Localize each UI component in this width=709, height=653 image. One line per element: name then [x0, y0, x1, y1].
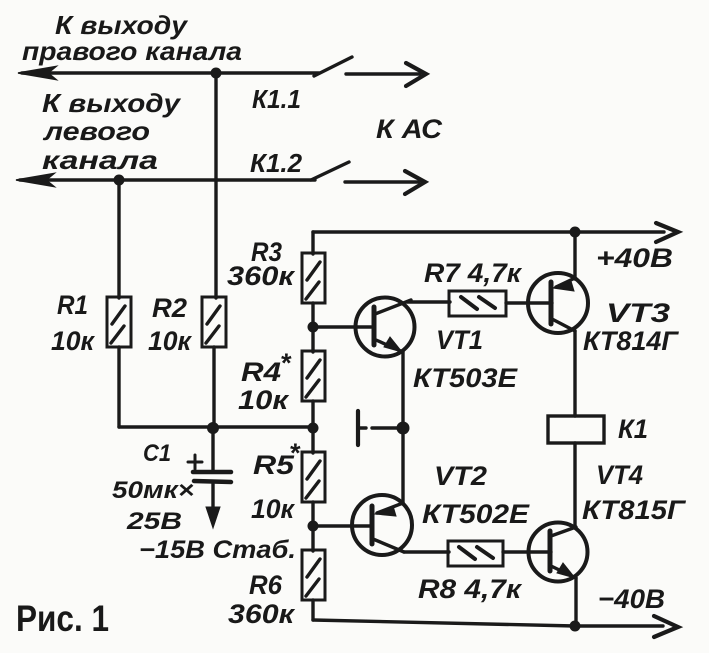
svg-text:К1: К1: [618, 414, 648, 444]
transistor VT4 (KT815G, NPN): [529, 523, 588, 582]
svg-text:VT4: VT4: [596, 460, 643, 490]
svg-text:*: *: [289, 438, 301, 468]
svg-text:R4: R4: [241, 357, 281, 387]
C1 polarity plus sign: [188, 461, 202, 464]
resistor R1 body: [107, 297, 131, 347]
svg-text:10к: 10к: [148, 326, 192, 356]
svg-text:−15В Стаб.: −15В Стаб.: [139, 536, 296, 564]
wire: +40V top rail: [313, 230, 664, 233]
svg-text:R7 4,7к: R7 4,7к: [424, 258, 522, 288]
wire: R8 to VT4 base: [503, 550, 551, 553]
node: K1.2 junction: [114, 175, 125, 186]
wire: R6 bottom lead: [311, 600, 314, 620]
switch contact K1.2 blade: [311, 162, 349, 180]
svg-text:25В: 25В: [126, 508, 182, 535]
wire: R7 to VT3 base: [506, 301, 552, 304]
wire: VT1 emitter lead down: [401, 353, 404, 428]
svg-text:КТ502Е: КТ502Е: [422, 499, 530, 529]
node: +40V junction at VT3 emitter: [570, 227, 581, 238]
node: VT1/VT2 emitter junction: [397, 422, 410, 435]
svg-text:10к: 10к: [51, 326, 95, 356]
wire: VT1 base wire: [313, 325, 371, 328]
relay K1 coil: [548, 416, 604, 443]
svg-text:VT1: VT1: [436, 325, 483, 355]
resistor R6 body: [302, 550, 325, 600]
wire: R3-R4 link: [311, 303, 314, 352]
node: K1.1 junction: [211, 68, 222, 79]
transistor VT1 (KT503E, NPN): [356, 298, 415, 357]
wire: arrow to AC (K1.1 output): [346, 72, 420, 75]
wire: vertical from K1.2 node down to R1: [117, 180, 120, 298]
svg-text:К выходу: К выходу: [42, 88, 182, 118]
capacitor plate at VT1/VT2 emitter node: [356, 411, 360, 445]
node: R4/R5 junction: [308, 423, 319, 434]
svg-text:50мк×: 50мк×: [112, 477, 194, 504]
svg-text:R6: R6: [249, 570, 283, 600]
svg-text:VT2: VT2: [434, 461, 487, 491]
wire: VT2 emitter lead (from VT1 emitter node): [401, 428, 404, 504]
node: C1 top junction: [207, 422, 219, 434]
svg-text:−40В: −40В: [598, 584, 665, 614]
resistor R8 body: [448, 541, 503, 566]
svg-text:*: *: [280, 348, 292, 378]
node: VT1 base junction: [308, 322, 319, 333]
arrow to left channel output (left-pointing): [16, 174, 54, 187]
wire: -40V bottom rail: [313, 620, 663, 626]
svg-text:К1.1: К1.1: [252, 84, 301, 114]
wire: VT4 emitter to -40V rail: [574, 578, 577, 626]
wire: R4-R5 link: [311, 401, 314, 453]
transistor VT2 (KT502E, PNP): [352, 495, 412, 555]
svg-text:Рис. 1: Рис. 1: [16, 598, 109, 639]
wire: arrow to AC (K1.2 output): [345, 180, 419, 183]
svg-text:К1.2: К1.2: [250, 148, 303, 178]
resistor R3 body: [302, 253, 325, 303]
wire: VT1 collector to R7: [407, 300, 450, 303]
svg-text:VT3: VT3: [606, 298, 670, 328]
svg-text:+40В: +40В: [596, 243, 673, 273]
wire: R5-R6 link: [311, 502, 314, 551]
resistor R4 body: [302, 351, 325, 401]
wire: R1 bottom lead: [117, 347, 120, 427]
wire: bottom bus y=427 from R1 to R4/R5 junction: [119, 425, 313, 428]
arrow to right channel output (left-pointing): [18, 67, 56, 80]
wire: VT3 emitter lead to +40V: [573, 232, 576, 279]
capacitor C1: [211, 427, 214, 470]
svg-text:360к: 360к: [227, 261, 295, 291]
resistor R5 body: [302, 452, 325, 502]
wire: right-channel output line (top, y=73): [22, 71, 319, 74]
svg-text:канала: канала: [42, 145, 158, 175]
svg-text:10к: 10к: [251, 494, 295, 524]
node: -40V junction at VT4 emitter: [570, 621, 581, 632]
svg-text:КТ503Е: КТ503Е: [413, 363, 518, 393]
resistor R2 body: [202, 297, 226, 347]
svg-text:КТ814Г: КТ814Г: [583, 326, 679, 356]
svg-text:левого: левого: [42, 116, 150, 146]
wire: relay K1 to VT4 collector: [573, 443, 576, 527]
svg-text:R2: R2: [152, 293, 187, 323]
svg-text:К АС: К АС: [376, 114, 443, 144]
transistor VT3 (KT814G, PNP): [528, 273, 588, 333]
wire: VT3 collector to relay K1: [573, 331, 576, 416]
svg-text:R8 4,7к: R8 4,7к: [418, 574, 522, 604]
svg-text:С1: С1: [143, 440, 171, 467]
svg-text:КТ815Г: КТ815Г: [582, 495, 687, 525]
switch contact K1.1 blade: [314, 57, 352, 76]
svg-text:360к: 360к: [228, 599, 295, 629]
svg-text:правого канала: правого канала: [22, 36, 242, 66]
wire: left-channel output line (y=180): [20, 178, 315, 181]
arrow: C1 to -15V rail (down): [206, 507, 220, 528]
wire: R2 bottom lead: [212, 347, 215, 427]
wire: R3 top lead: [311, 232, 314, 254]
wire: VT2 collector to R8: [404, 550, 449, 553]
svg-text:R1: R1: [57, 290, 88, 320]
wire: vertical from K1.1 node down to R2: [214, 73, 217, 298]
node: VT2 base junction: [308, 521, 319, 532]
resistor R7 body: [449, 291, 506, 316]
svg-text:10к: 10к: [238, 385, 290, 415]
wire: VT2 base wire: [313, 524, 370, 527]
